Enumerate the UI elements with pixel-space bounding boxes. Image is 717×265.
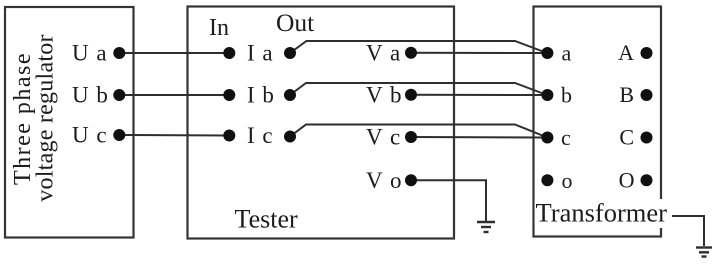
terminal Ib [223,89,235,101]
box: transformer [534,7,662,237]
terminal Vb [405,89,417,101]
wire Out_a to transformer a [290,41,547,53]
svg-text:I b: I b [247,83,274,108]
svg-text:a: a [562,41,572,66]
svg-text:U b: U b [72,83,108,108]
wire Vb to transformer b [411,94,547,96]
terminal Out a [284,47,296,59]
terminal Out b [284,89,296,101]
svg-text:o: o [562,168,573,193]
ground symbol right [696,248,712,257]
ground symbol middle [477,222,495,232]
svg-text:Transformer: Transformer [536,197,668,227]
svg-text:In: In [209,15,229,41]
svg-text:V a: V a [366,40,400,65]
wire Out_b to transformer b [290,83,547,95]
terminal c [541,132,553,144]
wire Ua-Ia [119,52,229,54]
svg-text:V b: V b [366,82,401,107]
svg-text:A: A [618,40,634,65]
wire Out_c to transformer c [290,125,547,138]
svg-text:I c: I c [247,123,273,148]
terminal Vc [405,131,417,143]
terminal C [641,132,653,144]
svg-text:O: O [619,167,635,192]
terminal Out c [284,131,296,143]
terminal b [541,89,553,101]
wire transformer label to ground [672,216,704,246]
terminal a [541,47,553,59]
box: three phase voltage regulator [5,7,134,238]
wire Ub-Ib [119,94,229,96]
svg-text:b: b [561,83,572,108]
wire Uc-Ic [119,134,229,137]
terminal Vo [405,174,417,186]
terminal Ic [223,130,235,142]
svg-text:Tester: Tester [235,205,298,234]
terminal Ub [113,89,125,101]
terminal O [641,174,653,186]
svg-text:U a: U a [72,41,107,66]
svg-text:c: c [561,125,571,150]
wire Va to transformer a [411,52,547,54]
terminal Ia [223,47,235,59]
svg-text:C: C [619,125,634,150]
terminal Uc [113,129,125,141]
svg-text:Out: Out [276,8,314,37]
svg-text:V c: V c [366,125,400,150]
svg-text:I a: I a [247,41,273,66]
wire Vc to transformer c [411,136,547,139]
wire Vo to ground [411,180,486,221]
terminal B [641,89,653,101]
white gap behind Transformer text [535,199,668,228]
terminal Ua [113,47,125,59]
svg-text:voltage regulator: voltage regulator [33,34,59,202]
terminal Va [405,47,417,59]
box: tester [188,7,455,239]
terminal A [641,47,653,59]
terminal o [541,174,553,186]
svg-text:B: B [619,82,634,107]
svg-text:V o: V o [366,168,401,193]
svg-text:U c: U c [72,123,107,148]
